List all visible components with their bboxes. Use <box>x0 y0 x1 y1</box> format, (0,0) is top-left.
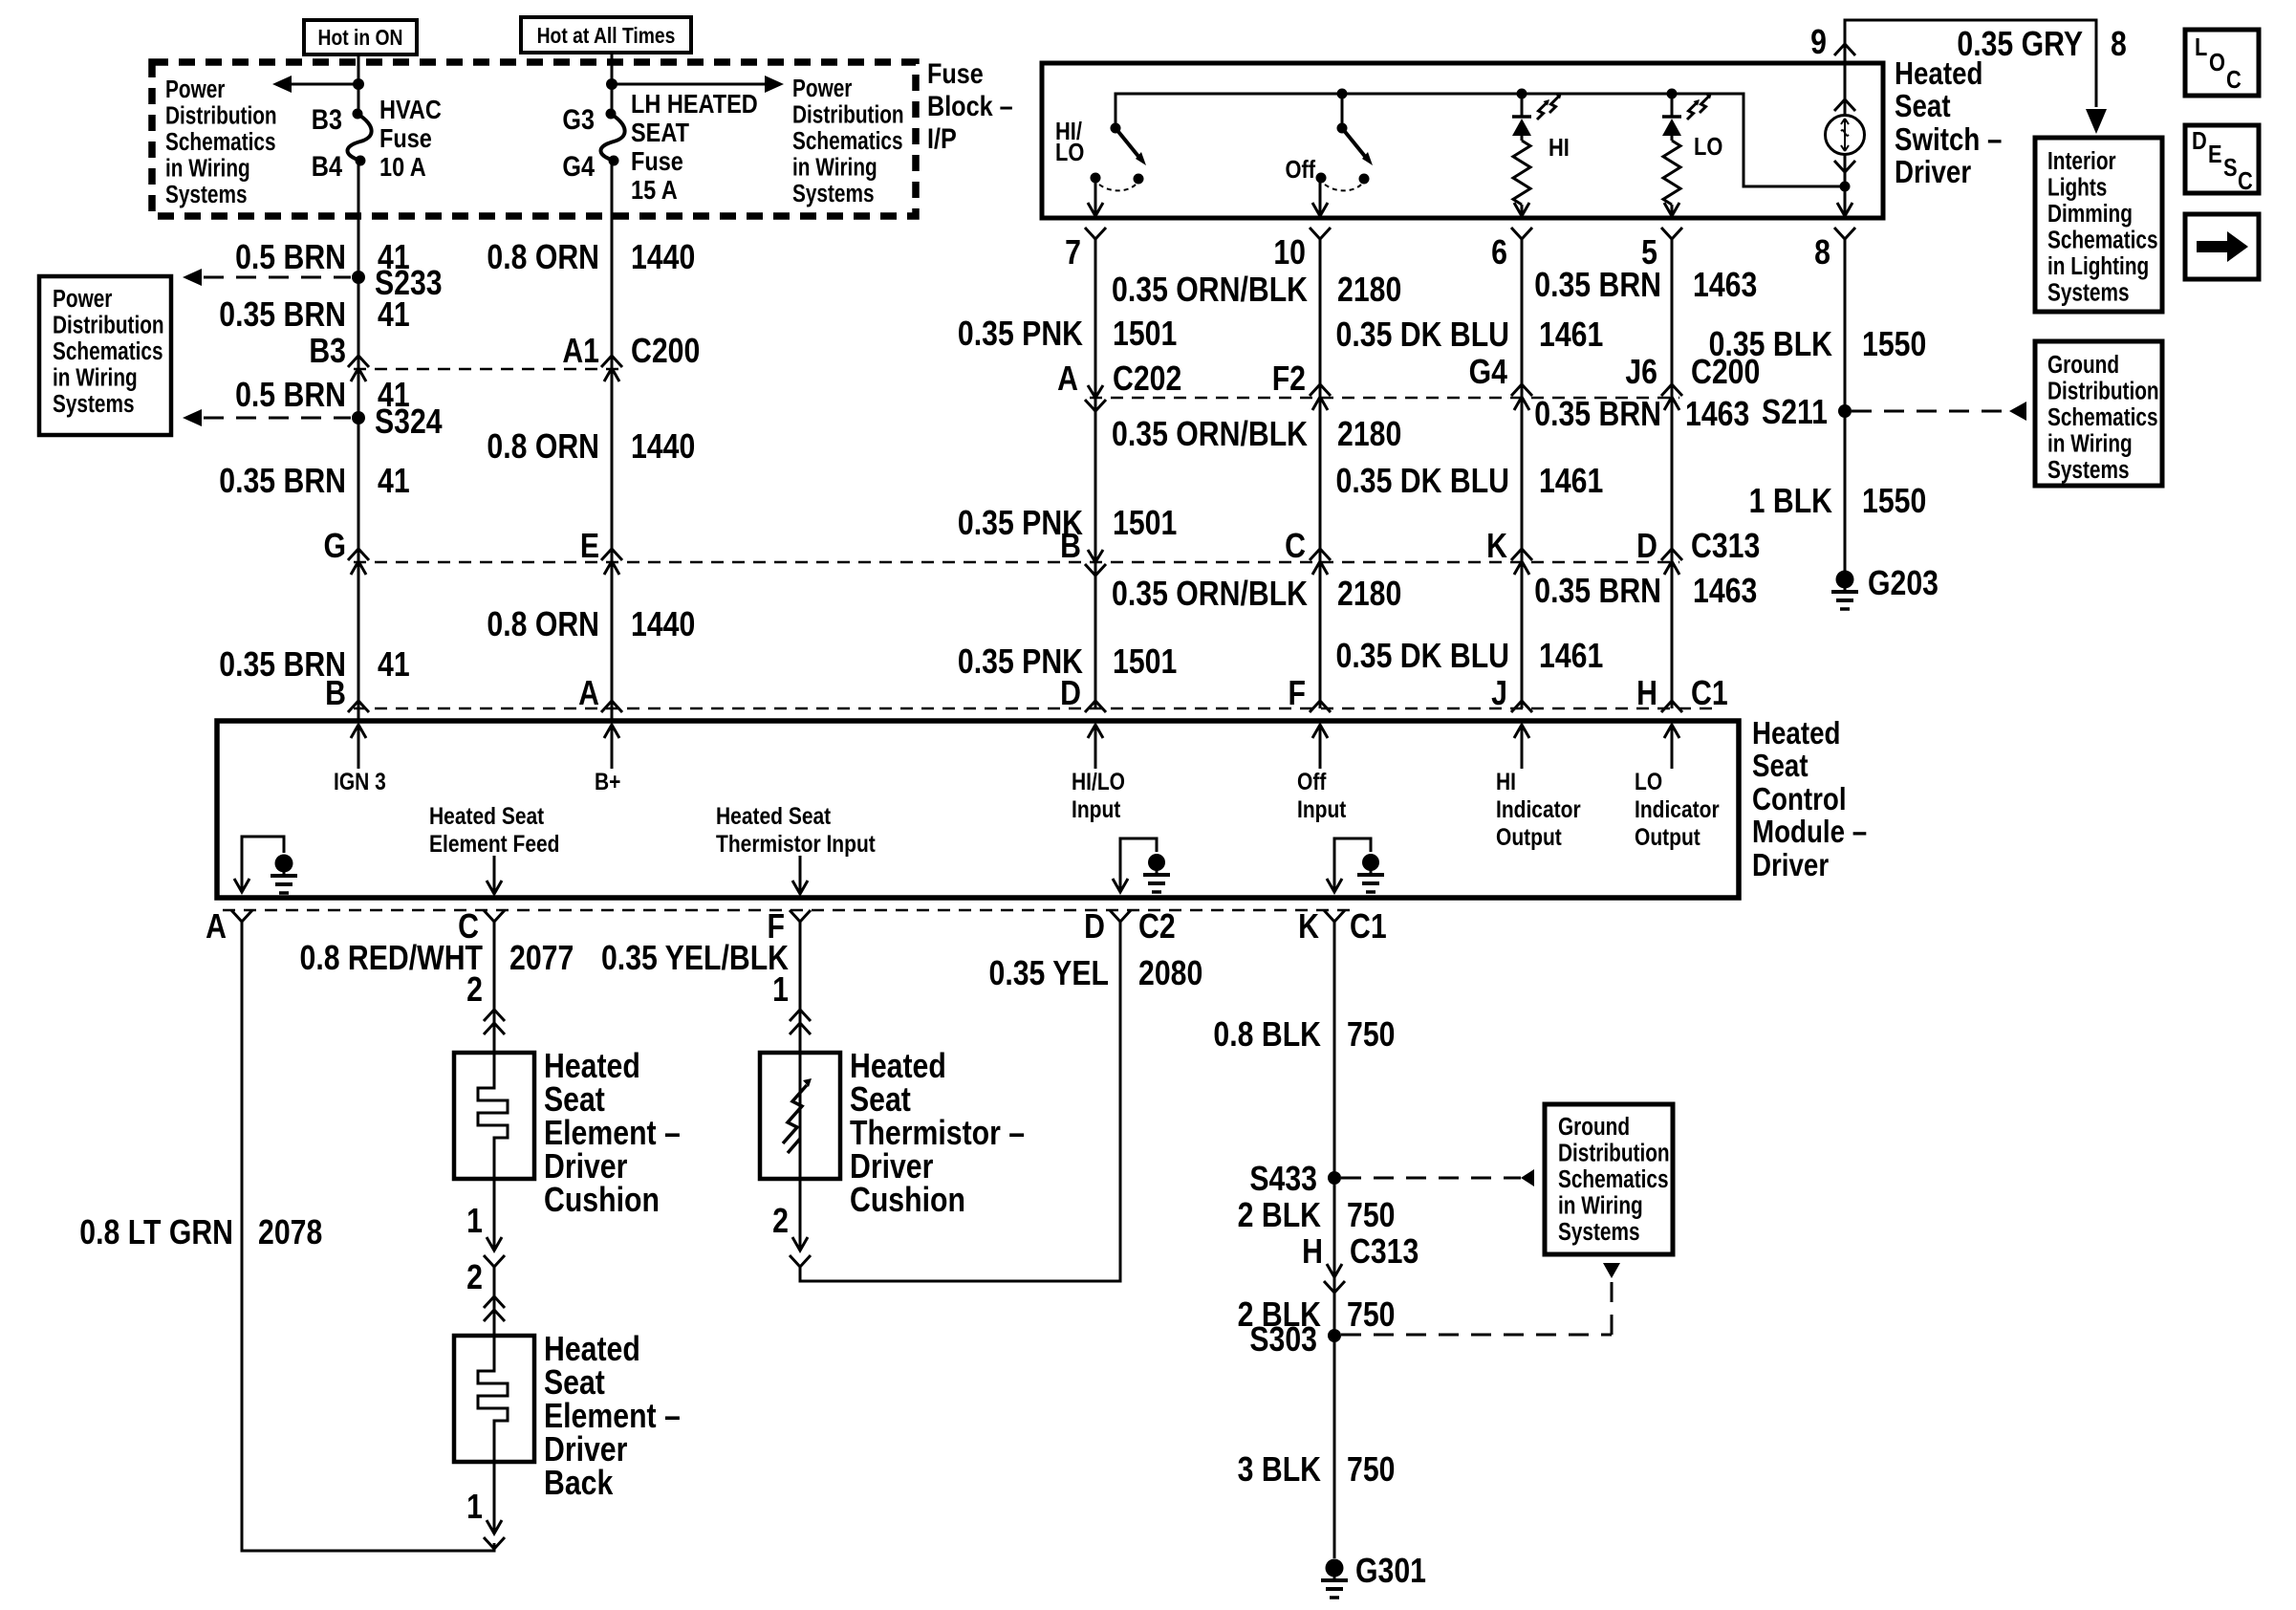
svg-text:Heated Seat: Heated Seat <box>716 802 831 829</box>
connector chevrons wire B row2 <box>601 549 622 560</box>
splice S433 <box>1328 1171 1341 1185</box>
svg-text:Dimming: Dimming <box>2047 200 2133 228</box>
svg-text:Seat: Seat <box>1752 749 1809 784</box>
svg-text:1550: 1550 <box>1862 483 1926 521</box>
svg-text:Schematics: Schematics <box>53 337 163 365</box>
svg-text:1 BLK: 1 BLK <box>1749 483 1832 521</box>
junction dot <box>353 78 364 90</box>
box: Ground Distribution Schematics in Wiring Systems (lower) <box>1545 1104 1673 1254</box>
arrow into Interior Lights box <box>2086 109 2107 134</box>
connector row 3 dashed (module top) <box>354 707 1716 710</box>
svg-text:Cushion: Cushion <box>850 1182 965 1220</box>
svg-text:C200: C200 <box>631 333 700 371</box>
element glyph <box>478 1053 508 1179</box>
illumination lamp <box>1844 63 1847 115</box>
connector row1 right dashed <box>1090 397 1679 400</box>
module internal ground at pin D <box>1120 838 1157 892</box>
svg-text:Schematics: Schematics <box>2047 403 2158 431</box>
svg-text:D: D <box>2192 127 2207 155</box>
svg-text:0.8 ORN: 0.8 ORN <box>487 606 599 644</box>
svg-text:C: C <box>2226 66 2242 94</box>
svg-text:Output: Output <box>1496 823 1562 850</box>
connector chevrons wire B row1 <box>601 356 622 367</box>
svg-text:HVAC: HVAC <box>379 96 442 124</box>
svg-text:A1: A1 <box>562 333 599 371</box>
wire C pin7 to module <box>1094 239 1097 708</box>
wire Off contact to pin 10 <box>1319 178 1322 216</box>
svg-text:Driver: Driver <box>1895 155 1971 190</box>
svg-text:S: S <box>2223 154 2238 182</box>
svg-text:Seat: Seat <box>1895 89 1951 124</box>
svg-text:41: 41 <box>378 463 410 501</box>
arrow thermistor input <box>799 856 802 894</box>
box: Power Distribution Schematics in Wiring Systems <box>39 276 171 435</box>
svg-text:B3: B3 <box>309 333 346 371</box>
svg-text:G4: G4 <box>1469 354 1508 392</box>
HI indicator resistor <box>1513 141 1530 205</box>
svg-text:1: 1 <box>466 1489 483 1527</box>
pin 2 element back <box>493 1267 496 1336</box>
connector chevrons <box>484 1010 505 1021</box>
svg-text:Input: Input <box>1297 795 1347 822</box>
svg-text:Schematics: Schematics <box>792 127 903 155</box>
wire HI/LO contact to pin 7 <box>1094 178 1097 216</box>
box: forward arrow <box>2185 214 2259 279</box>
svg-text:D: D <box>1084 908 1105 946</box>
svg-text:Output: Output <box>1635 823 1700 850</box>
svg-text:Off: Off <box>1285 156 1315 184</box>
connector wire D row2 <box>1310 549 1331 560</box>
wire A segment to module <box>357 161 360 721</box>
svg-text:Power: Power <box>53 285 112 313</box>
svg-text:C313: C313 <box>1691 528 1760 566</box>
svg-text:Interior: Interior <box>2047 147 2116 175</box>
svg-text:1550: 1550 <box>1862 326 1926 364</box>
switch HI/LO contacts <box>1091 173 1101 184</box>
svg-text:0.35 YEL: 0.35 YEL <box>989 955 1109 993</box>
svg-text:Schematics: Schematics <box>1558 1165 1669 1193</box>
svg-text:Systems: Systems <box>1558 1218 1640 1246</box>
svg-text:Distribution: Distribution <box>53 311 164 338</box>
svg-text:0.8 ORN: 0.8 ORN <box>487 428 599 467</box>
HI indicator LED <box>1521 94 1524 117</box>
splice S303 <box>1328 1329 1341 1342</box>
svg-text:1: 1 <box>772 971 789 1010</box>
switch HI/LO blade <box>1111 123 1121 134</box>
svg-text:Systems: Systems <box>792 180 875 207</box>
svg-text:C1: C1 <box>1350 908 1387 946</box>
svg-text:Driver: Driver <box>1752 848 1829 883</box>
connector wire D row1R <box>1310 384 1331 396</box>
svg-text:41: 41 <box>378 646 410 685</box>
svg-text:in Lighting: in Lighting <box>2047 252 2149 280</box>
svg-text:G3: G3 <box>562 103 595 136</box>
svg-text:Off: Off <box>1297 768 1327 794</box>
svg-text:Ground: Ground <box>2047 351 2119 379</box>
svg-text:1463: 1463 <box>1693 573 1757 611</box>
bus junction dots <box>1337 89 1348 99</box>
svg-text:Hot at All Times: Hot at All Times <box>537 25 676 49</box>
svg-text:0.35 PNK: 0.35 PNK <box>958 315 1083 354</box>
svg-text:Block –: Block – <box>927 90 1013 122</box>
svg-text:K: K <box>1486 528 1507 566</box>
svg-text:H: H <box>1636 675 1657 713</box>
arrow element feed <box>493 856 496 894</box>
svg-text:LO: LO <box>1055 139 1084 166</box>
wire with arrow + chevron <box>493 1179 496 1249</box>
svg-text:0.35 BLK: 0.35 BLK <box>1709 326 1832 364</box>
svg-text:15 A: 15 A <box>631 176 678 205</box>
svg-text:A: A <box>1057 360 1078 399</box>
connector chevron wire A row3 <box>348 701 369 712</box>
box: LOC <box>2185 30 2259 96</box>
wire pin C to element cushion <box>493 922 496 1053</box>
box: Interior Lights Dimming Schematics in Lighting Systems <box>2035 138 2162 312</box>
svg-text:B4: B4 <box>312 150 343 183</box>
wire D pin10 to module <box>1319 239 1322 708</box>
connector wire C row2 <box>1085 564 1106 576</box>
svg-text:0.35 DK BLU: 0.35 DK BLU <box>1336 463 1509 501</box>
svg-text:2180: 2180 <box>1337 416 1401 454</box>
svg-text:0.5 BRN: 0.5 BRN <box>235 239 346 277</box>
svg-text:Power: Power <box>792 75 852 102</box>
svg-text:1440: 1440 <box>631 428 695 467</box>
svg-text:0.8 LT GRN: 0.8 LT GRN <box>79 1214 233 1252</box>
svg-text:1461: 1461 <box>1539 463 1603 501</box>
svg-text:750: 750 <box>1347 1197 1395 1235</box>
svg-text:Schematics: Schematics <box>2047 226 2158 253</box>
connector chevrons wire A row2 <box>348 549 369 560</box>
svg-text:LO: LO <box>1694 133 1722 161</box>
svg-text:D: D <box>1636 528 1657 566</box>
switch internal bus <box>1116 94 1845 186</box>
svg-text:C: C <box>2238 167 2253 195</box>
svg-text:Indicator: Indicator <box>1496 795 1581 822</box>
svg-text:9: 9 <box>1810 24 1827 62</box>
wire B segment to module <box>611 161 614 721</box>
svg-text:2: 2 <box>466 971 483 1010</box>
svg-text:Lights: Lights <box>2047 173 2107 201</box>
svg-text:Indicator: Indicator <box>1635 795 1720 822</box>
svg-text:in Wiring: in Wiring <box>1558 1191 1643 1219</box>
connector C313 <box>1327 1264 1342 1277</box>
svg-text:G4: G4 <box>562 150 595 183</box>
connector wire E row1R <box>1511 384 1532 396</box>
switch Off blade <box>1337 123 1348 134</box>
box: Heated Seat Thermistor - Driver Cushion <box>760 1053 840 1179</box>
svg-text:Hot in ON: Hot in ON <box>318 27 403 51</box>
svg-text:S211: S211 <box>1762 394 1828 432</box>
svg-text:A: A <box>206 908 227 946</box>
svg-text:Schematics: Schematics <box>165 128 276 156</box>
wire lamp to pin 8 <box>1844 154 1847 216</box>
module internal ground at pin K <box>1334 838 1371 892</box>
svg-text:B: B <box>1060 528 1081 566</box>
svg-text:L: L <box>2195 33 2207 61</box>
splice S233 <box>352 271 365 284</box>
svg-text:Fuse: Fuse <box>927 57 984 90</box>
svg-text:B+: B+ <box>595 768 620 794</box>
svg-text:Distribution: Distribution <box>792 100 904 128</box>
svg-text:Module –: Module – <box>1752 815 1867 850</box>
svg-text:S324: S324 <box>375 403 443 442</box>
LO indicator resistor <box>1663 141 1680 205</box>
svg-text:S433: S433 <box>1249 1161 1317 1199</box>
svg-text:G203: G203 <box>1868 565 1939 603</box>
svg-text:41: 41 <box>378 296 410 335</box>
svg-text:HI: HI <box>1496 768 1516 794</box>
connector chevron wire D row3 <box>1310 701 1331 712</box>
bottom pin chevrons + letters <box>231 910 252 922</box>
connector row 1 left dashed <box>354 368 619 371</box>
svg-text:10 A: 10 A <box>379 153 426 182</box>
svg-text:0.35 DK BLU: 0.35 DK BLU <box>1336 638 1509 676</box>
svg-text:0.8 RED/WHT: 0.8 RED/WHT <box>300 940 483 978</box>
svg-text:10: 10 <box>1273 234 1306 272</box>
connector chevron wire C row3 <box>1085 701 1106 712</box>
connector wire F row2 <box>1661 549 1682 560</box>
svg-text:1501: 1501 <box>1113 643 1177 682</box>
svg-text:2: 2 <box>466 1259 483 1297</box>
svg-text:1461: 1461 <box>1539 316 1603 355</box>
wire E pin6 to module <box>1521 239 1524 708</box>
svg-text:Systems: Systems <box>53 390 135 418</box>
svg-text:LH HEATED: LH HEATED <box>631 90 758 119</box>
svg-text:Power: Power <box>165 76 225 103</box>
svg-text:0.8 BLK: 0.8 BLK <box>1213 1016 1321 1055</box>
svg-text:7: 7 <box>1065 234 1081 272</box>
svg-text:1501: 1501 <box>1113 505 1177 543</box>
wire G pin8 down to G203 <box>1844 239 1847 571</box>
svg-text:G301: G301 <box>1355 1553 1426 1591</box>
switch Off contacts <box>1316 173 1327 184</box>
wire pin K ground path <box>1333 922 1336 1558</box>
arrow to right Power Distribution <box>612 83 766 86</box>
splice S324 <box>352 411 365 424</box>
svg-text:0.35 ORN/BLK: 0.35 ORN/BLK <box>1112 272 1308 310</box>
wire to pin 6 <box>1521 205 1524 216</box>
switch pin chevrons below box <box>1085 228 1106 239</box>
wire: HVAC fuse feed from Hot in ON <box>357 54 360 114</box>
svg-text:2: 2 <box>772 1203 789 1241</box>
svg-text:C: C <box>1285 528 1306 566</box>
svg-text:HI/LO: HI/LO <box>1072 768 1125 794</box>
svg-text:J6: J6 <box>1625 354 1657 392</box>
svg-text:C313: C313 <box>1350 1233 1419 1272</box>
svg-text:1440: 1440 <box>631 239 695 277</box>
junction dot <box>606 78 617 90</box>
svg-text:Heated Seat: Heated Seat <box>429 802 544 829</box>
connector chevrons wire A row1 <box>348 356 369 367</box>
connector chevron wire E row3 <box>1511 701 1532 712</box>
arrow to left Power Distribution <box>291 83 358 86</box>
svg-text:G: G <box>323 528 346 566</box>
connector chevron pin 9 <box>1834 44 1855 55</box>
ground G301 <box>1326 1559 1344 1577</box>
svg-text:Fuse: Fuse <box>379 124 432 153</box>
svg-text:Input: Input <box>1072 795 1121 822</box>
svg-text:F2: F2 <box>1272 360 1306 399</box>
module internal ground at pin A <box>242 837 284 892</box>
svg-text:Systems: Systems <box>2047 456 2130 484</box>
wire: LH heated seat fuse feed <box>611 53 614 114</box>
connector row 2 dashed <box>354 561 1679 564</box>
dashed ref to Power Distribution box <box>204 417 351 420</box>
svg-text:Fuse: Fuse <box>631 147 683 176</box>
svg-text:1: 1 <box>466 1203 483 1241</box>
svg-text:I/P: I/P <box>927 122 957 155</box>
svg-text:S303: S303 <box>1249 1321 1317 1360</box>
svg-text:Thermistor Input: Thermistor Input <box>716 830 876 857</box>
svg-text:2 BLK: 2 BLK <box>1238 1197 1321 1235</box>
svg-text:0.35 BRN: 0.35 BRN <box>1534 267 1661 305</box>
svg-text:Back: Back <box>544 1465 614 1503</box>
svg-text:B3: B3 <box>312 103 342 136</box>
svg-text:C1: C1 <box>1691 675 1728 713</box>
connector row below module dashed <box>223 909 1352 912</box>
svg-text:0.35 BRN: 0.35 BRN <box>219 463 346 501</box>
svg-text:750: 750 <box>1347 1016 1395 1055</box>
svg-text:IGN 3: IGN 3 <box>334 768 386 794</box>
svg-text:1463: 1463 <box>1685 396 1749 434</box>
svg-text:Switch –: Switch – <box>1895 122 2002 158</box>
svg-text:0.35 YEL/BLK: 0.35 YEL/BLK <box>601 940 789 978</box>
svg-text:Cushion: Cushion <box>544 1182 660 1220</box>
svg-text:0.35 BRN: 0.35 BRN <box>1534 573 1661 611</box>
connector wire F row1R <box>1661 384 1682 396</box>
svg-text:SEAT: SEAT <box>631 119 689 147</box>
dashed ref to Ground Distribution (lower) <box>1341 1177 1521 1180</box>
splice S211 <box>1838 404 1852 418</box>
connector wire E row2 <box>1511 549 1532 560</box>
box: Heated Seat Switch - Driver <box>1042 63 1883 218</box>
box: Heated Seat Element - Driver Cushion <box>454 1053 534 1179</box>
wire pin F to thermistor <box>799 922 802 1053</box>
svg-text:Element Feed: Element Feed <box>429 830 559 857</box>
svg-text:2080: 2080 <box>1138 955 1202 993</box>
svg-text:C202: C202 <box>1113 360 1181 399</box>
svg-text:2077: 2077 <box>509 940 574 978</box>
connector chevron wire B row3 <box>601 701 622 712</box>
svg-text:E: E <box>580 528 599 566</box>
svg-text:C2: C2 <box>1138 908 1176 946</box>
box: DESC <box>2185 125 2259 193</box>
svg-text:Control: Control <box>1752 782 1847 817</box>
svg-text:Heated: Heated <box>1895 56 1982 92</box>
element glyph 2 <box>478 1336 508 1462</box>
fuse LH HEATED SEAT 15A (G3-G4) <box>606 109 617 120</box>
connector wire C row1R <box>1085 400 1106 411</box>
fuse block dashed box <box>152 62 916 216</box>
svg-text:0.5 BRN: 0.5 BRN <box>235 377 346 415</box>
svg-text:0.35 ORN/BLK: 0.35 ORN/BLK <box>1112 576 1308 614</box>
svg-text:in Wiring: in Wiring <box>792 153 877 181</box>
svg-text:Heated: Heated <box>1752 716 1840 751</box>
svg-text:Systems: Systems <box>165 181 248 208</box>
svg-text:LO: LO <box>1635 768 1662 794</box>
LO indicator LED <box>1671 94 1674 117</box>
svg-text:D: D <box>1060 675 1081 713</box>
svg-text:Systems: Systems <box>2047 278 2130 306</box>
wire to pin 5 <box>1671 205 1674 216</box>
svg-text:1463: 1463 <box>1693 267 1757 305</box>
svg-text:F: F <box>1289 675 1306 713</box>
svg-text:1461: 1461 <box>1539 638 1603 676</box>
svg-text:in Wiring: in Wiring <box>53 363 138 391</box>
dashed ref from S303 up to Ground Distribution box <box>1341 1334 1612 1337</box>
dashed ref to Ground Distribution <box>1852 410 2009 413</box>
svg-text:O: O <box>2209 49 2225 76</box>
svg-text:750: 750 <box>1347 1451 1395 1490</box>
ground G203 <box>1836 571 1854 589</box>
svg-text:in Wiring: in Wiring <box>165 154 250 182</box>
svg-text:K: K <box>1298 908 1319 946</box>
connector chevron wire F row3 <box>1661 701 1682 712</box>
box: Heated Seat Element - Driver Back <box>454 1336 534 1462</box>
svg-text:Distribution: Distribution <box>1558 1139 1670 1166</box>
thermistor glyph <box>799 1053 802 1179</box>
svg-text:6: 6 <box>1491 234 1507 272</box>
svg-text:0.35 BRN: 0.35 BRN <box>1534 396 1661 434</box>
wire: top feed for switch pin 9 <box>1845 20 2096 107</box>
svg-text:E: E <box>2208 141 2222 168</box>
box: Hot at All Times <box>521 17 691 53</box>
box: Ground Distribution Schematics in Wiring Systems (right) <box>2035 341 2162 486</box>
svg-text:2180: 2180 <box>1337 576 1401 614</box>
svg-text:8: 8 <box>2111 26 2127 64</box>
svg-text:H: H <box>1302 1233 1323 1272</box>
svg-text:0.35 BRN: 0.35 BRN <box>219 296 346 335</box>
svg-text:A: A <box>578 675 599 713</box>
svg-text:0.35 ORN/BLK: 0.35 ORN/BLK <box>1112 416 1308 454</box>
module top pin arrows <box>357 725 360 769</box>
svg-text:J: J <box>1491 675 1507 713</box>
svg-text:3 BLK: 3 BLK <box>1238 1451 1321 1490</box>
svg-text:HI: HI <box>1549 134 1570 162</box>
svg-text:0.8 ORN: 0.8 ORN <box>487 239 599 277</box>
svg-text:1440: 1440 <box>631 606 695 644</box>
svg-text:1501: 1501 <box>1113 315 1177 354</box>
svg-text:Distribution: Distribution <box>2047 377 2159 404</box>
svg-text:0.35 DK BLU: 0.35 DK BLU <box>1336 316 1509 355</box>
dashed ref to Power Distribution box <box>204 276 351 279</box>
wire thermistor return to module pin D <box>800 922 1120 1281</box>
svg-text:2180: 2180 <box>1337 272 1401 310</box>
svg-text:B: B <box>325 675 346 713</box>
svg-text:Distribution: Distribution <box>165 101 277 129</box>
wire F pin5 to module <box>1671 239 1674 708</box>
switch Off stem <box>1341 94 1344 128</box>
wire pin A down-around to element back <box>242 922 494 1551</box>
svg-text:8: 8 <box>1814 234 1830 272</box>
svg-text:Ground: Ground <box>1558 1113 1630 1141</box>
svg-text:2078: 2078 <box>258 1214 322 1252</box>
box: Hot in ON <box>304 20 417 54</box>
svg-text:750: 750 <box>1347 1296 1395 1335</box>
fuse HVAC 10A (B3-B4) <box>353 109 363 120</box>
box: Heated Seat Control Module - Driver <box>217 721 1739 898</box>
svg-text:in Wiring: in Wiring <box>2047 429 2133 457</box>
